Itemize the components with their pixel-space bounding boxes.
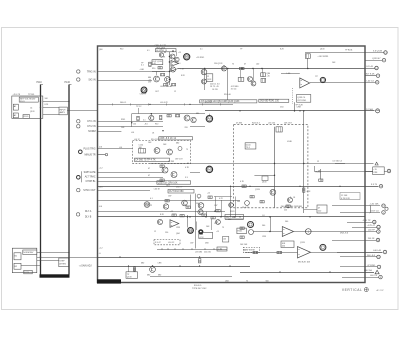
svg-text:220: 220 [185,127,188,129]
svg-text:CHOP BL: CHOP BL [86,181,97,183]
svg-text:10K OUT: 10K OUT [284,123,293,125]
svg-text:75: 75 [222,227,224,229]
svg-text:L40 C4: L40 C4 [367,80,375,82]
svg-text:3.3 C4: 3.3 C4 [231,89,237,91]
svg-text:+15: +15 [170,211,173,213]
svg-text:R10: R10 [120,49,123,51]
svg-text:Q133: Q133 [207,79,211,81]
svg-text:SYNC OUT: SYNC OUT [83,189,96,192]
svg-text:P140: P140 [65,82,71,84]
svg-text:680 150: 680 150 [364,270,373,272]
svg-text:-8.6 12: -8.6 12 [134,139,140,141]
svg-text:C87 R241: C87 R241 [297,100,307,102]
svg-text:R10: R10 [152,68,155,70]
svg-text:L40: L40 [153,63,156,65]
svg-text:CH 1 IN: CH 1 IN [87,120,96,123]
svg-text:Q133 47: Q133 47 [372,58,381,60]
svg-text:2N3 680 R241 150: 2N3 680 R241 150 [260,100,280,102]
svg-text:560: 560 [237,201,240,203]
svg-text:+15V R291: +15V R291 [317,56,329,58]
svg-text:Q84: Q84 [99,49,102,51]
svg-text:560: 560 [262,225,265,227]
svg-text:3.3 47: 3.3 47 [155,242,161,244]
svg-text:12 560: 12 560 [366,109,373,111]
svg-text:0.1: 0.1 [143,120,146,122]
svg-text:R241 47: R241 47 [205,102,212,104]
svg-text:Q133: Q133 [127,276,132,278]
svg-text:+15: +15 [207,193,210,195]
svg-text:NORM INV: NORM INV [23,252,34,254]
svg-text:47 2N3: 47 2N3 [236,123,242,125]
svg-text:Q133: Q133 [300,242,305,244]
svg-text:Q133: Q133 [30,111,34,113]
svg-text:680: 680 [141,263,144,265]
svg-text:150 1K: 150 1K [368,238,375,240]
svg-text:0.1: 0.1 [150,198,153,200]
svg-text:+1.2: +1.2 [99,248,103,250]
svg-text:680: 680 [147,275,150,277]
svg-text:75: 75 [160,49,162,51]
svg-text:47: 47 [198,198,200,200]
svg-text:Q84: Q84 [225,281,229,283]
svg-text:R241 3.3: R241 3.3 [252,123,260,125]
svg-text:C4 220: C4 220 [212,89,218,91]
svg-text:75: 75 [186,149,188,151]
svg-text:LEFT DELAY: LEFT DELAY [160,85,172,88]
svg-text:3.3: 3.3 [185,177,188,179]
svg-text:220: 220 [318,211,321,213]
svg-text:ATTEN: ATTEN [59,263,66,266]
svg-text:Q133: Q133 [255,189,260,191]
svg-text:NORM: NORM [88,130,95,133]
svg-text:CR8: CR8 [158,263,162,265]
svg-text:47 R241: 47 R241 [367,265,376,267]
svg-text:47: 47 [244,64,246,66]
svg-text:47: 47 [148,168,150,170]
svg-text:1K 4.7K: 1K 4.7K [242,207,249,209]
svg-text:OUT R10 680: OUT R10 680 [169,190,184,193]
svg-text:CH 2 IN: CH 2 IN [87,125,96,128]
svg-text:560 0.1: 560 0.1 [120,102,126,104]
svg-text:AMPL: AMPL [60,111,66,114]
svg-text:-8.6 12: -8.6 12 [168,242,175,244]
svg-text:0.1: 0.1 [147,50,150,52]
svg-text:2N3: 2N3 [205,243,208,245]
svg-text:0.1: 0.1 [200,49,203,51]
svg-text:R241: R241 [230,211,235,213]
svg-text:150: 150 [196,203,199,205]
svg-text:C4: C4 [30,108,32,110]
svg-text:150 Q133: 150 Q133 [214,63,222,65]
svg-text:+15: +15 [267,76,270,78]
svg-text:SWP GATE: SWP GATE [84,171,96,174]
svg-text:TP 12: TP 12 [136,106,142,108]
svg-text:L240: L240 [287,141,293,143]
svg-text:◁ GAIN ADJ: ◁ GAIN ADJ [79,265,92,268]
svg-text:C87: C87 [148,82,151,84]
svg-text:-8.6 680: -8.6 680 [195,251,202,253]
svg-text:560: 560 [266,281,269,283]
svg-text:STEP: STEP [59,261,65,263]
svg-text:L40 L40: L40 L40 [373,250,382,252]
svg-text:680 8.2K 10K: 680 8.2K 10K [298,262,311,264]
svg-text:R10 Q133: R10 Q133 [151,139,159,141]
svg-text:C87: C87 [190,243,193,245]
svg-text:CR8 -8.6 1K 12: CR8 -8.6 1K 12 [160,137,177,140]
svg-text:12: 12 [174,91,176,93]
svg-text:12: 12 [207,76,209,78]
svg-text:220 220: 220 220 [204,251,211,253]
svg-text:L40 1K: L40 1K [154,188,161,190]
svg-text:L40 TP: L40 TP [368,230,376,232]
svg-text:TP R241: TP R241 [345,50,352,52]
svg-text:2N3: 2N3 [121,127,124,129]
svg-text:R10: R10 [155,124,158,126]
svg-text:DELAY LINE DRIVER: DELAY LINE DRIVER [281,205,303,208]
svg-text:+5: +5 [99,253,101,255]
svg-text:680: 680 [196,113,199,115]
svg-text:CR8 TP: CR8 TP [140,94,147,96]
svg-text:L40 C4: L40 C4 [370,275,378,277]
svg-text:4.7K: 4.7K [200,237,205,239]
svg-text:+15: +15 [178,52,181,54]
svg-text:12: 12 [154,231,156,233]
svg-text:OUT 8.2K: OUT 8.2K [365,74,375,76]
svg-text:CR8: CR8 [262,236,266,238]
svg-text:PLUS TRIG: PLUS TRIG [84,149,96,151]
svg-text:C4 560 75 TP 4.7K: C4 560 75 TP 4.7K [135,159,156,162]
svg-text:P110: P110 [37,82,43,84]
svg-text:+15 R241: +15 R241 [196,57,204,59]
svg-text:560 -8.6: 560 -8.6 [367,255,376,257]
svg-text:L40: L40 [223,239,226,241]
svg-text:47: 47 [318,208,320,210]
svg-text:TRIG IN: TRIG IN [87,70,96,73]
svg-text:220: 220 [243,250,246,252]
svg-text:⊣140: ⊣140 [139,68,144,71]
svg-text:0.1 560 C4: 0.1 560 C4 [333,160,342,162]
svg-text:3.3 Q133: 3.3 Q133 [373,51,383,53]
svg-text:Q133 C4: Q133 C4 [297,97,306,99]
svg-text:680: 680 [158,275,161,277]
svg-text:-8.6: -8.6 [145,124,148,126]
svg-text:FIG 8-5: FIG 8-5 [194,285,202,287]
svg-text:-8.6: -8.6 [99,206,102,208]
svg-text:3.3 75: 3.3 75 [371,184,378,186]
svg-text:150: 150 [133,124,136,126]
svg-text:-8.6: -8.6 [119,147,122,149]
svg-text:75: 75 [246,281,248,283]
svg-text:R10 L40: R10 L40 [224,94,231,96]
svg-text:1K R241 75: 1K R241 75 [156,50,168,52]
svg-text:L40 10K: L40 10K [370,204,379,206]
svg-text:75: 75 [232,64,234,66]
svg-text:12 10K: 12 10K [341,195,348,197]
svg-text:CR8: CR8 [176,227,180,229]
svg-text:A 1 747: A 1 747 [377,289,385,292]
svg-text:12: 12 [317,161,319,163]
svg-text:INPUT: INPUT [60,110,67,112]
svg-text:L40: L40 [256,64,259,66]
svg-text:+15 4.7K: +15 4.7K [13,94,21,96]
svg-text:12: 12 [150,205,152,207]
svg-text:-8.6: -8.6 [131,132,134,134]
svg-text:C4: C4 [262,215,264,217]
svg-text:TP101: TP101 [28,94,35,96]
svg-text:4.7K 47: 4.7K 47 [367,225,375,227]
svg-text:2N3 -8.6: 2N3 -8.6 [340,233,349,235]
svg-text:Q133: Q133 [262,182,266,184]
svg-text:1K 75 +15: 1K 75 +15 [210,86,219,88]
svg-text:C87: C87 [168,196,171,198]
svg-text:Q133 1K CR8 10K: Q133 1K CR8 10K [158,181,178,184]
svg-text:ALT TRAC: ALT TRAC [85,176,96,179]
svg-text:C87 OUT: C87 OUT [175,159,183,161]
svg-text:OUT C4: OUT C4 [371,210,380,212]
svg-text:-8.6 150: -8.6 150 [268,123,275,125]
svg-text:680: 680 [176,143,179,145]
svg-text:-8.6 4.7K: -8.6 4.7K [160,102,168,104]
svg-text:R241: R241 [121,119,125,121]
svg-text:2N3 TP: 2N3 TP [176,186,183,188]
svg-text:SIG IN: SIG IN [88,78,95,81]
svg-text:10K 10K: 10K 10K [240,244,248,246]
svg-text:47 2N3: 47 2N3 [168,161,174,163]
svg-text:DLY A: DLY A [85,210,92,213]
svg-text:VERTICAL: VERTICAL [342,288,362,292]
svg-text:TYPE 547 OSC: TYPE 547 OSC [192,288,207,290]
svg-text:680: 680 [228,219,231,221]
svg-text:75: 75 [187,163,189,165]
svg-text:150: 150 [165,232,168,234]
svg-text:560: 560 [285,221,288,223]
svg-text:Q84: Q84 [176,233,180,235]
svg-text:220: 220 [284,210,287,212]
svg-text:4.7K TP: 4.7K TP [363,220,371,222]
svg-text:DLY B: DLY B [85,217,92,219]
svg-text:C87: C87 [214,205,217,207]
svg-text:C4 L40: C4 L40 [366,66,374,68]
svg-text:MINUS TR: MINUS TR [85,154,96,156]
svg-text:+15: +15 [216,231,219,233]
svg-text:Q133: Q133 [320,49,324,51]
svg-text:0.1: 0.1 [141,65,144,67]
svg-text:4.7K 8.2K: 4.7K 8.2K [341,198,350,200]
svg-text:+4.6: +4.6 [99,187,103,189]
svg-text:47: 47 [148,175,150,177]
svg-text:0.1: 0.1 [178,63,181,65]
svg-text:+1.2: +1.2 [99,167,103,169]
